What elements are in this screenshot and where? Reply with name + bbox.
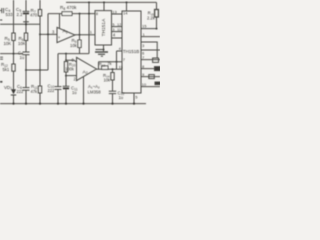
wire U1 ground spur bbox=[96, 49, 104, 51]
wire U1-U2 link y26.6 bbox=[112, 26, 123, 28]
node A1 output R9 tap bbox=[79, 34, 81, 36]
component right edge box C bbox=[149, 75, 155, 79]
wire R15 top lead from rail bbox=[156, 2, 158, 9]
wire R7 down through rail bbox=[39, 16, 41, 86]
wire V+ mid-left rail bbox=[0, 23, 40, 25]
wire R6 to C7 bbox=[25, 41, 27, 53]
node C5 rail junction bbox=[25, 23, 27, 25]
resistor R5 bbox=[12, 33, 15, 41]
wire A2 ground pin bbox=[83, 77, 85, 104]
op-amp A2 bbox=[77, 57, 97, 80]
wire pin4 horizontal bbox=[117, 50, 123, 52]
ground symbol U1 bbox=[95, 52, 108, 56]
resistor R13 bbox=[102, 66, 108, 70]
node x40 y70 bbox=[39, 69, 41, 71]
wire bias horizontal y70 bbox=[26, 69, 48, 71]
svg-text:TH151A: TH151A bbox=[101, 18, 107, 36]
node x112.5 ground bbox=[111, 103, 113, 105]
svg-text:10k: 10k bbox=[70, 43, 78, 48]
wire U2 pin10 row bbox=[141, 86, 160, 88]
resistor R10 bbox=[64, 62, 67, 73]
svg-text:222: 222 bbox=[48, 88, 56, 93]
svg-text:15: 15 bbox=[142, 24, 147, 29]
svg-text:R13: R13 bbox=[99, 62, 106, 68]
svg-text:470: 470 bbox=[30, 13, 38, 18]
resistor R6 bbox=[24, 33, 27, 41]
svg-text:A1: A1 bbox=[63, 29, 68, 35]
node x13.5 ground bbox=[12, 103, 14, 105]
wire U1-U2 link y38 bbox=[112, 37, 123, 39]
svg-text:1u: 1u bbox=[119, 95, 124, 100]
svg-text:A2: A2 bbox=[83, 69, 88, 75]
wire VD1 to ground rail bbox=[13, 95, 15, 104]
wire R9 top lead bbox=[79, 14, 81, 40]
svg-text:10K: 10K bbox=[18, 41, 26, 46]
wire A1 output bbox=[75, 34, 95, 36]
wire C8 to ground rail bbox=[25, 90, 27, 103]
resistor R7 bbox=[38, 10, 41, 17]
capacitor C7 bbox=[23, 52, 30, 55]
capacitor C10 bbox=[55, 87, 62, 90]
node U2 pin5 ground bbox=[133, 103, 135, 105]
svg-text:47k: 47k bbox=[31, 89, 39, 94]
svg-text:R8 470k: R8 470k bbox=[60, 5, 77, 11]
wire R12 to VD1 bbox=[13, 71, 15, 89]
wire x58 down bbox=[57, 54, 59, 87]
wire column x13.5 upper bbox=[13, 0, 15, 33]
wire A2 bottom input bbox=[66, 75, 77, 77]
wire U1 bottom pin bbox=[103, 45, 105, 51]
resistor R11 bbox=[38, 86, 41, 93]
capacitor left-edge stub bbox=[0, 57, 3, 59]
node U1 ground junction bbox=[103, 49, 105, 51]
component right edge blob D bbox=[155, 82, 160, 85]
svg-text:LM358: LM358 bbox=[88, 89, 102, 94]
wire R13 up lead bbox=[98, 62, 100, 69]
wire A2 output bbox=[97, 68, 123, 70]
wire V+ top rail bbox=[66, 1, 157, 3]
wire pin4 vertical bbox=[116, 51, 118, 69]
wire U2 pin1 row bbox=[141, 36, 160, 38]
svg-text:100k: 100k bbox=[65, 67, 75, 72]
svg-text:VD1: VD1 bbox=[4, 85, 12, 91]
svg-text:14: 14 bbox=[123, 11, 128, 16]
IC U1 TH151A box bbox=[95, 11, 112, 45]
wire input line left bbox=[0, 53, 23, 55]
resistor R14 bbox=[111, 73, 114, 81]
svg-text:533: 533 bbox=[6, 12, 14, 17]
wire C5 to rail bbox=[25, 14, 27, 33]
wire R10 bottom lead bbox=[65, 72, 67, 86]
wire x89 from top rail bbox=[88, 2, 90, 53]
wire R14 top lead bbox=[112, 69, 114, 72]
node A2 top input tap bbox=[65, 59, 67, 61]
resistor R8 bbox=[62, 12, 72, 16]
wire R5 to input node bbox=[13, 41, 15, 65]
svg-text:10: 10 bbox=[142, 82, 147, 87]
resistor R12 bbox=[12, 64, 15, 71]
component right edge box B bbox=[155, 67, 161, 71]
wire U2 pin8 row bbox=[141, 68, 160, 70]
node R8 output corner bbox=[79, 13, 81, 15]
node A2 ground bbox=[82, 103, 84, 105]
wire A2 top input bbox=[66, 60, 77, 62]
node input junction bbox=[13, 53, 15, 55]
svg-text:2.2: 2.2 bbox=[17, 12, 24, 17]
node x58 ground bbox=[57, 103, 59, 105]
svg-text:10k: 10k bbox=[104, 77, 112, 82]
node R14 tap bbox=[112, 68, 114, 70]
wire U2 pin6 row bbox=[141, 49, 160, 51]
wire R9 bottom lead bbox=[79, 48, 81, 54]
svg-text:2.2k: 2.2k bbox=[147, 16, 156, 21]
wire node70 to C8 bbox=[25, 70, 27, 88]
capacitor C12 bbox=[109, 91, 116, 93]
wire C11 to ground bbox=[65, 90, 67, 104]
capacitor C11 electrolytic bbox=[63, 86, 70, 89]
svg-text:1u: 1u bbox=[72, 90, 77, 95]
svg-text:1u: 1u bbox=[20, 55, 25, 60]
wire U2 pin5 bottom bbox=[133, 93, 135, 104]
node U1 top pin rail bbox=[103, 1, 105, 3]
node pin15 R15 junction bbox=[156, 28, 158, 30]
svg-text:+: + bbox=[58, 35, 61, 40]
wire bottom ground rail bbox=[0, 103, 146, 105]
wire R15 bottom lead bbox=[156, 17, 158, 29]
svg-text:5k1: 5k1 bbox=[3, 67, 10, 72]
wire R13 row bbox=[99, 61, 123, 63]
node x89 feedback cross bbox=[88, 13, 90, 15]
node x26 y70 bbox=[25, 69, 27, 71]
wire mid horizontal y53.6 bbox=[58, 53, 89, 55]
wire R10 top lead bbox=[65, 54, 67, 62]
wire U1 top pin bbox=[103, 2, 105, 10]
wire U1-U2 link y14 bbox=[112, 13, 123, 15]
node R10 top bbox=[65, 53, 67, 55]
node x26 ground bbox=[25, 103, 27, 105]
wire U2 pin7 row bbox=[141, 59, 160, 61]
op-amp A1 bbox=[57, 27, 75, 42]
wire U1-U2 link y31.6 bbox=[112, 31, 123, 33]
node x40 ground bbox=[39, 103, 41, 105]
node C5 junction tick bbox=[23, 21, 29, 23]
diode VD1 zener bbox=[11, 89, 16, 95]
svg-text:10K: 10K bbox=[4, 41, 12, 46]
capacitor C8 bbox=[23, 88, 30, 91]
capacitor C5 electrolytic bbox=[23, 11, 30, 14]
left edge tick y20 bbox=[0, 19, 2, 21]
component right edge box A bbox=[153, 58, 159, 62]
capacitor C4 bbox=[0, 8, 4, 13]
node pin4 line cross bbox=[116, 61, 118, 63]
wire C10 to ground bbox=[57, 89, 59, 103]
svg-text:222: 222 bbox=[17, 89, 25, 94]
node x89 rail bbox=[88, 1, 90, 3]
node x48 input bbox=[47, 33, 49, 35]
wire feedback horizontal y13.6 bbox=[48, 13, 95, 15]
IC U2 TH151B box bbox=[122, 11, 141, 93]
wire U2 pin14 supply bbox=[126, 2, 128, 11]
left edge tick y81.8 bbox=[0, 81, 2, 83]
resistor R15 bbox=[155, 10, 159, 18]
wire C7 to node70 bbox=[25, 55, 27, 70]
node A2 bottom input tap bbox=[65, 75, 67, 77]
wire feedback vertical x48 bbox=[47, 14, 49, 70]
node U2 pin14 rail bbox=[126, 1, 128, 3]
node x40 input tap bbox=[39, 33, 41, 35]
wire column x26 top bbox=[25, 0, 27, 11]
wire U2 pin9 row bbox=[141, 76, 160, 78]
wire R11 to ground bbox=[39, 93, 41, 104]
wire U2 pin3 row bbox=[141, 42, 157, 58]
wire C12 to ground bbox=[112, 94, 114, 104]
svg-text:13: 13 bbox=[112, 9, 117, 14]
wire U2 pin15 row bbox=[141, 28, 157, 30]
wire R14 to C12 bbox=[112, 80, 114, 91]
wire column x40 top bbox=[39, 0, 41, 10]
svg-text:TH151B: TH151B bbox=[123, 49, 140, 54]
wire A1 power pin bbox=[59, 14, 61, 29]
node x66 ground bbox=[65, 103, 67, 105]
wire A1 input bbox=[40, 33, 57, 35]
resistor R9 bbox=[78, 40, 81, 48]
